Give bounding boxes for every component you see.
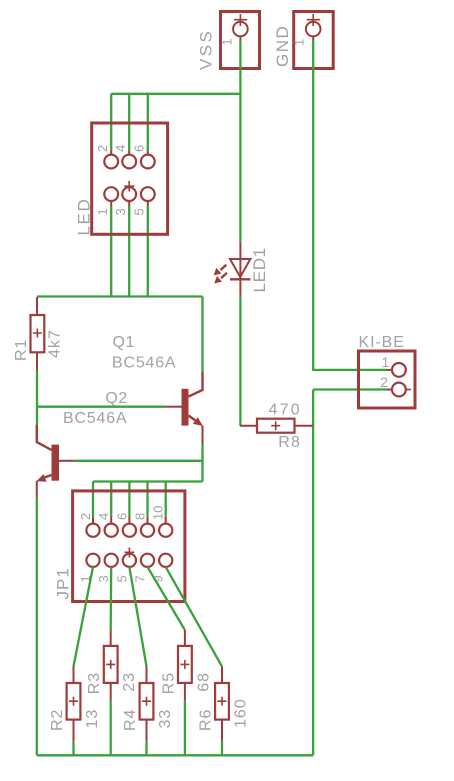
pin 2 with origin tick — [392, 383, 406, 397]
wire R5 bottom — [184, 701, 186, 756]
wire JP1 pin5 to R4 — [129, 567, 146, 667]
svg-text:33: 33 — [157, 709, 174, 729]
wire JP1 pin1 to R2 — [74, 567, 94, 667]
svg-text:BC546A: BC546A — [63, 410, 127, 427]
wire LED pin3 down to collector bus — [128, 206, 130, 297]
svg-text:R8: R8 — [278, 434, 301, 451]
pin 9 — [159, 554, 172, 567]
connector KI-BE — [359, 334, 416, 408]
wire R4 bottom — [145, 741, 147, 755]
pin 3 — [105, 554, 118, 567]
svg-text:KI-BE: KI-BE — [359, 334, 405, 351]
pin 8 — [141, 524, 154, 537]
pin 4 — [122, 155, 136, 169]
wire R6 bottom — [221, 741, 223, 755]
wire GND down to KI-BE pin1 — [313, 40, 386, 370]
svg-text:R2: R2 — [49, 709, 66, 731]
wire KI-BE pin2 / R8 down to bottom bus — [312, 390, 314, 756]
wire R3 bottom — [110, 701, 112, 756]
wire JP1 pin4 drop — [110, 482, 112, 518]
pin 1 — [392, 363, 406, 377]
svg-text:1: 1 — [220, 38, 235, 45]
resistor R5 68 — [160, 630, 212, 701]
svg-text:1: 1 — [95, 208, 110, 215]
svg-text:6: 6 — [131, 145, 146, 152]
resistor R2 13 — [49, 667, 101, 742]
pin 5 — [141, 187, 155, 201]
transistor Q1 BC546A (right) — [112, 334, 203, 444]
wire JP1 pin10 drop — [165, 482, 167, 518]
svg-text:JP1: JP1 — [54, 567, 73, 599]
svg-text:6: 6 — [114, 513, 129, 520]
svg-text:R1: R1 — [13, 339, 30, 361]
resistor R4 33 — [122, 667, 174, 742]
pin 1 — [86, 554, 99, 567]
svg-text:8: 8 — [133, 513, 148, 520]
emission arrow 2 — [221, 273, 227, 278]
wire LED pin2 drop — [110, 94, 112, 151]
svg-text:VSS: VSS — [197, 29, 216, 70]
wire Q2 emitter down to bottom bus — [36, 499, 38, 756]
pin 10 — [159, 524, 172, 537]
wire LED top bus — [111, 93, 240, 95]
svg-text:Q1: Q1 — [113, 334, 135, 351]
LED diode LED1 — [214, 242, 269, 297]
svg-text:R6: R6 — [198, 709, 215, 731]
svg-text:4: 4 — [113, 145, 128, 152]
svg-text:Q2: Q2 — [105, 390, 127, 407]
svg-text:LED: LED — [75, 198, 94, 236]
svg-text:BC546A: BC546A — [112, 355, 176, 372]
wire node down to Q2 collector — [36, 407, 38, 425]
wire R1 bottom to base node — [36, 371, 38, 407]
resistor R6 160 — [198, 667, 250, 742]
pin 1 — [104, 187, 118, 201]
svg-text:GND: GND — [273, 25, 292, 67]
wire R2 bottom — [72, 741, 74, 755]
svg-text:5: 5 — [131, 208, 146, 215]
svg-text:4k7: 4k7 — [47, 329, 64, 358]
svg-text:470: 470 — [269, 402, 302, 419]
wire collector bus — [37, 295, 203, 297]
svg-text:LED1: LED1 — [250, 247, 269, 292]
pin 5 with origin cross — [123, 554, 136, 567]
svg-text:68: 68 — [195, 672, 212, 692]
svg-text:10: 10 — [151, 506, 166, 520]
svg-text:2: 2 — [78, 513, 93, 520]
svg-text:23: 23 — [121, 672, 138, 692]
svg-text:5: 5 — [114, 575, 129, 582]
wire KI-BE pin2 left — [313, 388, 387, 390]
pin 2 — [86, 524, 99, 537]
wire JP1 pin9 to R6 — [166, 567, 222, 667]
connector GND — [273, 12, 333, 69]
svg-text:R4: R4 — [122, 709, 139, 731]
wire Q1 emitter down — [201, 444, 203, 482]
svg-text:4: 4 — [96, 513, 111, 520]
wire LED pin5 down to collector bus — [147, 206, 149, 297]
wire JP1 pin8 drop — [146, 482, 148, 518]
wire JP1 pin2 drop — [92, 482, 94, 518]
svg-text:2: 2 — [95, 145, 110, 152]
svg-text:R5: R5 — [160, 672, 177, 694]
wire VSS down to LED1 anode — [239, 40, 241, 242]
wire Q2 base to Q1 emitter column — [74, 460, 202, 462]
svg-text:R3: R3 — [86, 672, 103, 694]
svg-text:160: 160 — [233, 698, 250, 728]
pin 7 — [141, 554, 154, 567]
wire JP1 top bus — [93, 480, 203, 482]
svg-text:7: 7 — [133, 575, 148, 582]
connector LED — [75, 123, 168, 236]
wire bottom bus — [37, 754, 313, 756]
connector JP1 — [54, 491, 185, 602]
pin 4 — [105, 524, 118, 537]
wire LED pin6 drop — [147, 94, 149, 151]
wire JP1 pin7 to R5 — [148, 567, 185, 630]
resistor R1 4k7 — [13, 297, 64, 371]
resistor R8 470 — [240, 402, 313, 452]
wire Q1 collector up — [201, 297, 203, 373]
svg-text:1: 1 — [382, 354, 390, 370]
wire JP1 pin3 to R3 — [110, 567, 113, 630]
wire Q1 base — [37, 406, 166, 408]
wire JP1 pin6 drop — [128, 482, 130, 518]
svg-text:1: 1 — [292, 39, 307, 46]
svg-text:2: 2 — [380, 374, 388, 390]
connector VSS — [197, 12, 260, 71]
transistor Q2 BC546A (left, mirrored) — [37, 390, 128, 499]
pin 2 — [104, 155, 118, 169]
svg-text:13: 13 — [84, 709, 101, 729]
wire LED1 cathode down to R8 — [239, 297, 241, 426]
svg-text:3: 3 — [96, 575, 111, 582]
emission arrow 1 — [221, 265, 227, 270]
pin 6 — [141, 155, 155, 169]
wire LED pin4 drop — [128, 94, 130, 151]
wire LED pin1 down to collector bus — [110, 206, 112, 297]
pin 6 — [123, 524, 136, 537]
pin 3 with origin cross — [122, 187, 136, 201]
resistor R3 23 — [86, 630, 138, 701]
svg-text:3: 3 — [113, 208, 128, 215]
